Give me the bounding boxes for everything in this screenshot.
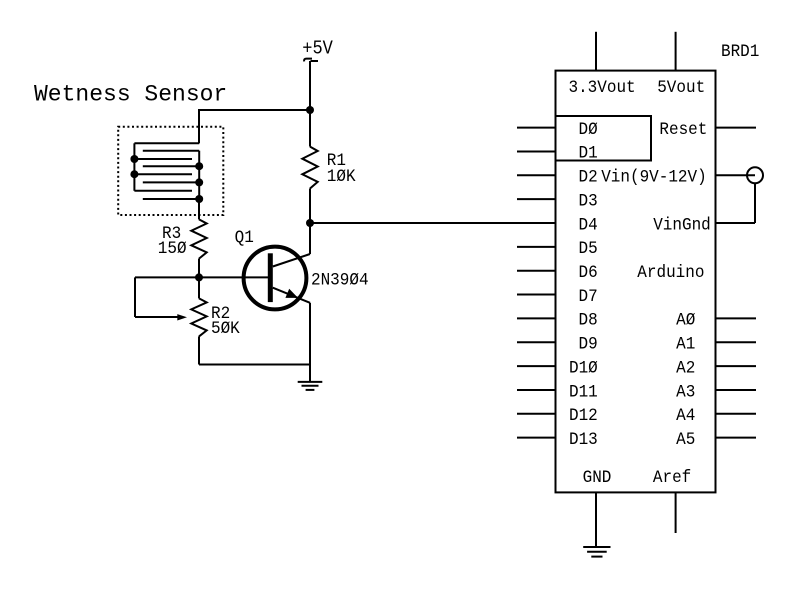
potentiometer R2: [191, 298, 206, 336]
inner box around D0 D1: [556, 116, 652, 161]
svg-text:Wetness Sensor: Wetness Sensor: [34, 82, 227, 108]
svg-text:15Ø: 15Ø: [158, 239, 187, 259]
connector circle Vin: [747, 167, 763, 183]
pin stubs A0-A5: [716, 317, 757, 319]
svg-text:A1: A1: [676, 335, 695, 355]
wire left down: [134, 277, 136, 317]
svg-text:D12: D12: [569, 406, 598, 426]
wire sensor top lead: [198, 110, 200, 143]
svg-text:D2: D2: [579, 168, 598, 188]
svg-text:D1: D1: [579, 144, 598, 164]
svg-text:3.3Vout: 3.3Vout: [569, 78, 636, 98]
wire collector node to Arduino D4: [310, 222, 556, 224]
svg-text:BRD1: BRD1: [721, 42, 759, 62]
ground symbol GND pin: [583, 546, 610, 548]
sensor dotted outline: [118, 127, 223, 215]
svg-text:AØ: AØ: [676, 311, 695, 331]
ground symbol Q1 emitter: [298, 381, 323, 383]
svg-text:D11: D11: [569, 383, 598, 403]
svg-text:D9: D9: [579, 335, 598, 355]
junction dot sensor left 1: [130, 155, 138, 163]
wire base node left: [135, 276, 199, 278]
svg-text:Q1: Q1: [235, 228, 254, 248]
pin stub Vin: [716, 174, 756, 176]
svg-text:D3: D3: [579, 192, 598, 212]
wire emitter down: [309, 303, 311, 382]
svg-text:2N39Ø4: 2N39Ø4: [311, 271, 369, 291]
svg-text:D13: D13: [569, 430, 598, 450]
wire R3 to base node: [198, 259, 200, 278]
wire R2 to bottom: [198, 336, 200, 364]
resistor R3: [191, 219, 206, 258]
wire sensor to R3: [198, 199, 200, 219]
pin stub Aref bottom: [675, 492, 677, 533]
svg-text:5ØK: 5ØK: [211, 319, 241, 339]
wire base node to Q1: [199, 276, 268, 278]
wire Vin circle down: [754, 183, 756, 223]
transistor Q1 body circle: [244, 247, 307, 310]
wire wiper arrow lead: [135, 316, 180, 318]
wire bottom to emitter: [199, 364, 310, 366]
potentiometer wiper arrow: [177, 314, 187, 320]
svg-text:Reset: Reset: [659, 120, 707, 140]
wire VCC junction to sensor: [198, 109, 310, 111]
transistor Q1 base bar: [268, 253, 273, 302]
svg-text:D7: D7: [579, 287, 598, 307]
wire R1 to collector node: [309, 189, 311, 224]
svg-text:Vin(9V-12V): Vin(9V-12V): [601, 168, 707, 188]
svg-text:+5V: +5V: [302, 39, 333, 60]
junction dot sensor right 2: [195, 178, 203, 186]
junction dot sensor left 2: [130, 170, 138, 178]
transistor Q1 emitter arrow: [285, 289, 298, 298]
svg-text:A5: A5: [676, 430, 695, 450]
wetness sensor electrode comb: [133, 143, 135, 191]
pin stub GND bottom: [595, 492, 597, 547]
svg-text:VinGnd: VinGnd: [653, 216, 711, 236]
junction dot sensor right 3: [195, 195, 203, 203]
wire +5V to R1: [309, 61, 311, 147]
svg-text:1ØK: 1ØK: [327, 167, 357, 187]
svg-text:Aref: Aref: [653, 468, 691, 488]
pin stub Reset: [716, 127, 757, 129]
svg-text:GND: GND: [583, 468, 612, 488]
svg-text:Arduino: Arduino: [637, 263, 704, 283]
svg-text:A2: A2: [676, 359, 695, 379]
Arduino board outline BRD1: [556, 71, 716, 493]
power symbol +5V supply: [304, 59, 318, 62]
wire base node to R2: [198, 277, 200, 298]
svg-text:D5: D5: [579, 239, 598, 259]
svg-text:D4: D4: [579, 216, 598, 236]
junction dot node VCC/sensor: [306, 106, 314, 114]
wire collector to node: [309, 223, 311, 254]
pin stub 3.3Vout top: [595, 32, 597, 71]
svg-text:D6: D6: [579, 263, 598, 283]
pin stubs D0-D13 left: [517, 127, 556, 129]
svg-text:A3: A3: [676, 383, 695, 403]
junction dot sensor right 1: [195, 162, 203, 170]
svg-text:5Vout: 5Vout: [657, 78, 705, 98]
svg-text:D8: D8: [579, 311, 598, 331]
svg-text:DØ: DØ: [579, 120, 598, 140]
junction dot base node: [195, 273, 203, 281]
pin stub 5Vout top: [675, 32, 677, 71]
junction dot collector node: [306, 219, 314, 227]
transistor Q1 collector line: [273, 254, 310, 267]
svg-text:A4: A4: [676, 406, 695, 426]
resistor R1: [302, 147, 317, 189]
wire to VinGnd: [716, 222, 756, 224]
transistor Q1 emitter line: [273, 288, 310, 303]
svg-text:D1Ø: D1Ø: [569, 359, 598, 379]
